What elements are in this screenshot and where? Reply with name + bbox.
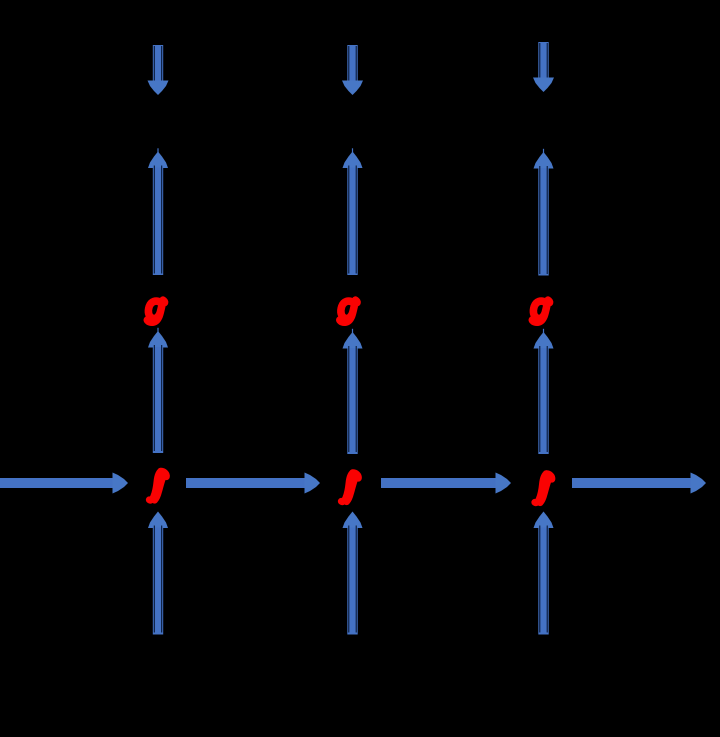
node g1 label bbox=[147, 300, 164, 322]
arrow: g1 up to output col1 bbox=[148, 148, 168, 275]
arrow: g3 up to output col3 bbox=[534, 149, 554, 276]
node f3 label bbox=[535, 474, 552, 503]
node f2 label bbox=[341, 473, 358, 502]
arrow: output down-arrow col1 bbox=[148, 45, 169, 95]
node f1 label bbox=[149, 471, 166, 500]
wire: arrow f2 to f3 bbox=[381, 473, 511, 494]
arrow: f1 up to g1 col1 bbox=[148, 328, 168, 453]
node g2 label bbox=[340, 300, 357, 322]
node g3 label bbox=[532, 300, 549, 322]
arrow: g2 up to output col2 bbox=[343, 148, 363, 275]
arrow: bottom input up to f2 col2 bbox=[343, 512, 363, 635]
arrow: bottom input up to f3 col3 bbox=[534, 512, 554, 635]
arrow: f3 up to g3 col3 bbox=[534, 329, 554, 454]
wire: output arrow f3 to right edge bbox=[572, 473, 706, 494]
arrow: output down-arrow col3 bbox=[533, 42, 554, 92]
wire: input arrow from left edge into f1 bbox=[0, 473, 128, 494]
arrow: output down-arrow col2 bbox=[342, 45, 363, 95]
wire: arrow f1 to f2 bbox=[186, 473, 320, 494]
arrow: bottom input up to f1 col1 bbox=[148, 512, 168, 635]
arrow: f2 up to g2 col2 bbox=[343, 329, 363, 454]
